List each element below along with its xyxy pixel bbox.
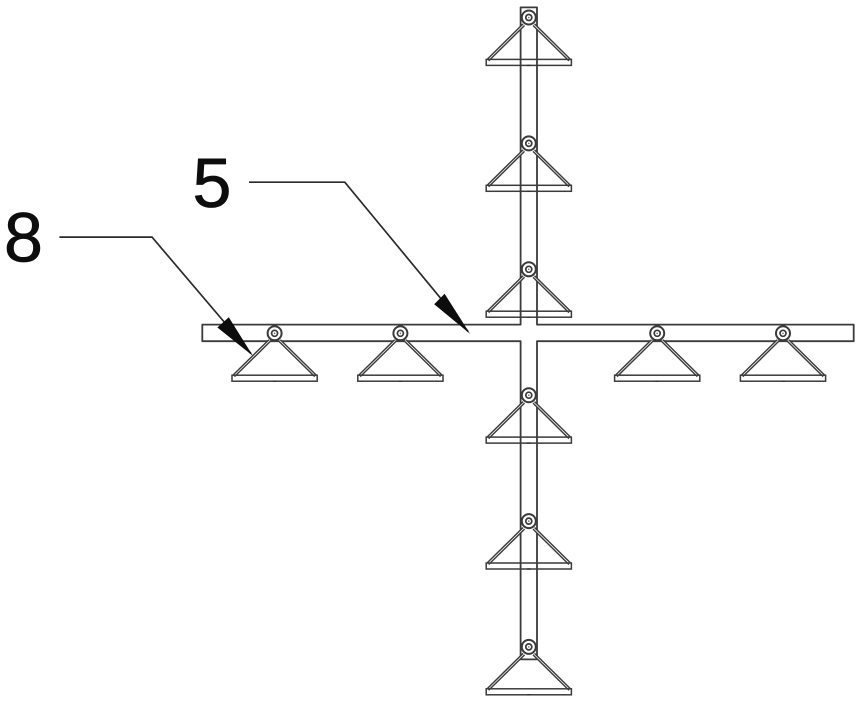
- nozzle unit V4: [486, 388, 571, 443]
- nozzle unit V5: [486, 514, 571, 569]
- nozzle unit H2: [358, 326, 443, 381]
- svg-text:8: 8: [4, 199, 43, 277]
- cross pipe frame outline: [202, 7, 853, 659]
- nozzle unit V2: [486, 136, 571, 191]
- nozzle unit H3: [615, 326, 700, 381]
- nozzle unit H4: [740, 326, 825, 381]
- arrowhead 5: [434, 294, 470, 334]
- nozzle unit V6: [486, 640, 571, 695]
- arrowhead 8: [217, 317, 253, 356]
- svg-text:5: 5: [193, 144, 232, 222]
- nozzle unit V1: [486, 11, 571, 66]
- nozzle unit V3: [486, 262, 571, 317]
- leader line for label 8: [59, 237, 251, 353]
- leader line for label 5: [249, 182, 468, 331]
- nozzle unit H1: [232, 326, 317, 381]
